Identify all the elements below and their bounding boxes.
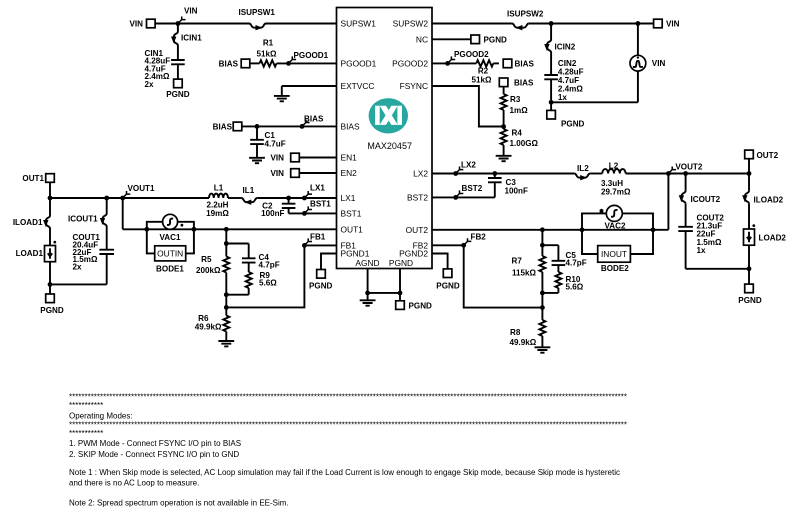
junction [540,305,545,310]
load LOAD1 [45,246,56,262]
svg-text:2x: 2x [73,263,83,272]
svg-text:VOUT2: VOUT2 [675,162,702,171]
wire COUT1 to LOAD1 bottom [50,283,107,285]
wire to ILOAD2 [748,174,750,191]
svg-text:VIN: VIN [184,7,198,16]
Maxim logo [369,98,408,133]
svg-text:ICOUT1: ICOUT1 [68,215,98,224]
svg-text:PGND: PGND [166,90,190,99]
wire R8 to ground [541,336,543,347]
wire ICOUT2 to COUT2 [685,204,687,226]
terminal PGND PGND1 [317,270,326,279]
svg-text:BODE2: BODE2 [601,264,629,273]
wire OUT1 to VOUT1 [49,182,51,198]
svg-text:PGND: PGND [389,258,413,268]
svg-text:PGOOD1: PGOOD1 [294,51,329,60]
junction [48,282,53,287]
svg-text:1mΩ: 1mΩ [510,106,529,115]
junction [492,171,497,176]
svg-text:49.9kΩ: 49.9kΩ [510,338,537,347]
current probe IL2 [574,174,590,178]
wire LOAD2 to PGND [748,245,750,269]
terminal PGND CIN2 [547,110,556,119]
wire LOAD1 to PGND [49,262,51,285]
wire LX2 to IL2 [432,173,574,175]
inductor L2 [602,169,625,173]
svg-text:EXTVCC: EXTVCC [341,81,375,91]
node LX2 [453,171,458,176]
svg-text:SUPSW2: SUPSW2 [393,19,429,29]
current probe IL1 [241,198,257,202]
resistor R8 [539,320,545,336]
label R10 values [566,275,584,292]
node PGOOD2 [445,61,450,66]
svg-text:PGND: PGND [484,35,508,44]
junction [48,196,53,201]
svg-text:VAC2: VAC2 [605,222,626,231]
svg-text:MAX20457: MAX20457 [367,141,412,151]
svg-text:***********: *********** [69,401,103,410]
svg-text:***********: *********** [69,429,103,438]
junction [104,196,109,201]
resistor R1 [260,60,277,66]
wire PGND down [399,269,401,293]
svg-text:PGND: PGND [561,119,585,128]
resistor R5 [223,257,229,273]
pin names left [341,19,377,259]
terminal OUT1 [46,174,55,183]
svg-text:Note 2: Spread spectrum operat: Note 2: Spread spectrum operation is not… [69,499,289,508]
wire PGND to terminal [399,293,401,301]
svg-text:PGND: PGND [309,281,333,290]
svg-text:BST1: BST1 [310,200,331,209]
wire to C5 branch [542,244,558,246]
wire L2 to OUT2 [626,173,749,175]
svg-text:PGND: PGND [436,281,460,290]
svg-text:BST1: BST1 [341,208,362,218]
label R1 values [257,39,278,59]
terminal PGND PGND2 [443,269,452,278]
junction [549,21,554,26]
ground AGND [360,300,376,303]
svg-text:R1: R1 [263,39,274,48]
label R9 values [259,271,277,288]
wire OUT2 pin wire [432,229,668,231]
wire VOUT1 to ICOUT1 [106,198,108,214]
wire R5 to R6 [225,273,227,316]
label R6 values [195,314,222,331]
ground EXTVCC [274,96,290,99]
junction [651,227,656,232]
label R3 values [510,95,529,115]
label L2 values [601,161,631,196]
wire VOUT2 to ICOUT2 [685,174,687,191]
svg-text:OUTIN: OUTIN [157,249,183,259]
wire ILOAD2 to LOAD2 [748,204,750,229]
wire LX2 to C3 [494,174,496,178]
current probe ISUPSW2 [512,24,529,28]
terminal BIAS R2 [503,59,512,68]
svg-text:115kΩ: 115kΩ [512,268,537,277]
svg-text:VIN: VIN [271,154,285,163]
svg-text:R3: R3 [510,95,521,104]
svg-text:R2: R2 [478,67,489,76]
load LOAD2 [744,229,755,245]
terminal BIAS R3 [499,78,508,87]
svg-text:FB2: FB2 [471,233,487,242]
svg-text:Operating Modes:: Operating Modes: [69,411,133,420]
resistor R7 [539,256,545,272]
terminal OUT2 [745,150,754,159]
resistor R4 [501,129,507,145]
junction [286,196,291,201]
wire COUT2 down [685,232,687,269]
resistor R2 [476,60,493,66]
svg-text:LOAD1: LOAD1 [16,249,44,258]
junction [224,227,229,232]
notes text block [69,393,627,508]
svg-text:SUPSW1: SUPSW1 [341,19,377,29]
svg-text:VIN: VIN [652,59,666,68]
svg-text:OUT1: OUT1 [22,174,44,183]
junction [224,305,229,310]
svg-text:1. PWM Mode - Connect FSYNC I/: 1. PWM Mode - Connect FSYNC I/O pin to B… [69,439,241,448]
resistor R9 [246,272,252,288]
wire VIN to ICIN2 [550,24,552,40]
wire OUT1 pin wire [123,228,337,230]
svg-text:ILOAD2: ILOAD2 [754,195,784,204]
current probe ILOAD2 [745,191,749,204]
svg-text:ICIN1: ICIN1 [181,34,202,43]
source VIN pulse [630,24,646,103]
ground R4 [496,156,512,159]
wire VOUT2 down to VAC2 [667,174,669,230]
svg-text:FB1: FB1 [310,232,326,241]
wire IL2 to L2 [590,173,602,175]
svg-text:OUT2: OUT2 [406,225,429,235]
wire BST2 pin wire [432,196,495,198]
label C5 values [566,251,587,268]
svg-text:OUT2: OUT2 [757,151,779,160]
svg-text:EN1: EN1 [341,153,358,163]
wire AGND to ground [367,293,369,300]
svg-text:Note 1 : When Skip mode is sel: Note 1 : When Skip mode is selected, AC … [69,468,620,477]
wire ILOAD1 to LOAD1 [49,229,51,246]
wire ICOUT1 to COUT1 [106,227,108,249]
svg-text:******************************: ****************************************… [69,393,627,402]
label CIN1 values [145,49,171,89]
svg-text:FSYNC: FSYNC [400,81,428,91]
label C1 values [265,131,286,149]
svg-text:and there is no AC Loop to mea: and there is no AC Loop to measure. [69,478,199,487]
svg-text:LX1: LX1 [310,184,325,193]
svg-text:IL2: IL2 [577,164,589,173]
wire BIAS to R1 [250,62,260,64]
svg-text:51kΩ: 51kΩ [257,50,278,59]
svg-text:VAC1: VAC1 [160,233,181,242]
wire L1 to IL1 [228,197,241,199]
wire EN1 pin [299,157,336,159]
svg-text:2x: 2x [145,80,155,89]
bode box BODE1 [155,246,186,261]
junction [540,227,545,232]
label COUT1 values [73,233,101,272]
terminal VIN EN2 [291,169,300,178]
svg-text:ILOAD1: ILOAD1 [13,218,43,227]
svg-text:LX1: LX1 [341,193,356,203]
svg-text:R8: R8 [510,328,521,337]
junction [683,171,688,176]
wire C1 to ground [256,145,258,158]
wire R3 to R4 [503,110,505,129]
wire R7 to R8 [541,272,543,320]
node BST1 [302,211,307,216]
wire to ILOAD1 [49,198,51,216]
label C3 values [505,178,528,195]
node PGOOD1 [286,61,291,66]
wire EN2 pin [299,172,336,174]
wire CIN1 to PGND [177,65,179,79]
bode box BODE2 [598,246,631,263]
junction [747,171,752,176]
wire EXTVCC pin [282,85,337,87]
label C4 values [259,253,280,270]
terminal PGND LOAD1 [46,294,55,303]
node FB1 [302,243,307,248]
wire LX1 to C2 [288,198,290,203]
svg-text:ICOUT2: ICOUT2 [691,195,721,204]
svg-text:ISUPSW2: ISUPSW2 [507,10,544,19]
svg-text:BIAS: BIAS [213,123,233,132]
label CIN2 values [558,59,584,102]
svg-text:ICIN2: ICIN2 [555,43,576,52]
svg-text:PGND: PGND [40,306,64,315]
wire C4 top [248,244,250,258]
wire PGND2 pin wire [432,254,448,269]
svg-text:PGOOD1: PGOOD1 [341,58,377,68]
svg-text:VOUT1: VOUT1 [128,184,155,193]
junction [192,227,197,232]
svg-text:VIN: VIN [666,20,680,29]
capacitor CIN1 [171,60,185,64]
inductor L1 [209,194,228,198]
wire C3 to BST2 [494,183,496,197]
wire COUT2 to LOAD2 bottom [686,268,749,270]
wire FB2 to divider [464,245,543,307]
wire R2 to BIAS [493,62,499,64]
svg-text:NC: NC [416,34,428,44]
wire C2 to BST1 [288,209,290,214]
source VAC2 [582,205,653,254]
terminal VIN input2 [654,19,663,28]
svg-text:PGND: PGND [409,301,433,310]
wire ISUPSW1 to SUPSW1 pin [266,23,337,25]
svg-text:OUT1: OUT1 [341,224,364,234]
terminal PGND CIN1 [174,79,183,88]
svg-text:100nF: 100nF [505,186,528,195]
svg-text:BIAS: BIAS [341,121,360,131]
wire C5 branch to R7 bottom [542,292,558,294]
wire FSYNC wire [432,86,504,127]
svg-text:******************************: ****************************************… [69,420,627,429]
terminal VIN input [147,19,156,28]
resistor R10 [555,272,561,288]
label R7 values [512,257,537,278]
svg-text:51kΩ: 51kΩ [472,75,493,84]
ground C1 [249,158,265,161]
svg-text:5.6Ω: 5.6Ω [259,279,277,288]
node LX1 [302,196,307,201]
junction [580,227,585,232]
capacitor COUT2 [678,227,693,231]
junction [398,291,403,296]
current probe ISUPSW1 [249,24,266,28]
svg-text:200kΩ: 200kΩ [196,266,221,275]
terminal BIAS R1 [241,59,250,68]
wire VOUT1 to L1 [50,197,209,199]
wire BST1 pin [289,212,337,214]
wire PGOOD2 to R2 [432,62,476,64]
svg-text:PGOOD2: PGOOD2 [392,58,428,68]
wire FB1 to divider [226,245,304,307]
label C2 values [261,202,284,219]
current probe ICOUT2 [681,191,685,204]
svg-text:5.6Ω: 5.6Ω [566,283,584,292]
wire CIN2 bottom to VIN source [551,101,638,103]
wire C5 to R10 [557,266,559,272]
wire NC pin wire [432,38,471,40]
capacitor CIN2 [544,75,558,79]
svg-text:LOAD2: LOAD2 [759,234,787,243]
capacitor C2 [282,204,296,208]
node BIAS [300,124,305,129]
svg-text:100nF: 100nF [261,209,284,218]
wire R10 bottom [557,288,559,293]
svg-text:R5: R5 [201,255,212,264]
wire CIN2 to PGND [550,80,552,110]
svg-text:AGND: AGND [355,258,379,268]
wire VOUT1 down to OUT1 wire [122,198,124,229]
current probe ILOAD1 [46,216,50,229]
current probe ICIN1 [174,32,178,46]
wire R6 to ground [225,332,227,342]
wire FB2 pin wire [432,244,464,246]
svg-text:BODE1: BODE1 [156,264,184,273]
wire SUPSW2 to ISUPSW2 [432,23,512,25]
resistor R3 [501,94,507,110]
source VAC1 [147,214,194,253]
label R2 values [472,67,493,85]
svg-text:BST2: BST2 [407,192,428,202]
terminal PGND LOAD2 [745,284,754,293]
capacitor COUT1 [99,250,114,254]
svg-text:BIAS: BIAS [514,79,534,88]
current probe ICIN2 [547,40,551,53]
pin names bottom AGND PGND [355,258,413,268]
ground R8 [535,347,551,350]
svg-text:INOUT: INOUT [601,249,627,259]
junction [747,266,752,271]
svg-text:19mΩ: 19mΩ [206,209,229,218]
svg-text:L1: L1 [214,184,224,193]
node VOUT2 [666,171,671,176]
svg-text:1.00GΩ: 1.00GΩ [510,139,539,148]
node FB2 [461,243,466,248]
wire OUT1 to R5 [225,229,227,256]
svg-text:ISUPSW1: ISUPSW1 [239,8,276,17]
svg-text:1x: 1x [558,93,568,102]
capacitor C4 [242,258,256,262]
junction [540,243,545,248]
junction [255,124,260,129]
wire COUT1 down [106,255,108,285]
label R8 values [510,328,537,347]
svg-text:L2: L2 [609,161,619,170]
svg-text:R7: R7 [512,257,523,266]
svg-text:2. SKIP Mode - Connect FSYNC I: 2. SKIP Mode - Connect FSYNC I/O pin to … [69,450,239,459]
svg-text:BIAS: BIAS [515,59,535,68]
svg-text:1x: 1x [697,246,707,255]
wire BIAS to C1 [256,126,258,139]
label COUT2 values [697,213,725,255]
wire AGND-PGND join [368,292,400,294]
pin names right [392,19,428,259]
wire BIAS to R3 [503,87,505,94]
wire to C4 branch [226,243,248,245]
terminal PGND IC bottom [396,301,405,310]
svg-text:IL1: IL1 [243,186,255,195]
svg-text:R4: R4 [512,129,523,138]
svg-text:49.9kΩ: 49.9kΩ [195,322,222,331]
junction [224,241,229,246]
terminal PGND NC [471,35,480,44]
svg-text:4.7pF: 4.7pF [259,261,280,270]
label R5 values [196,255,221,275]
svg-text:BST2: BST2 [462,184,483,193]
wire VIN to ICIN1 [177,24,179,32]
wire R1 to PGOOD1 pin [277,62,337,64]
op-amp U1 MAX20457 IC body [337,8,433,269]
capacitor C1 [250,140,264,144]
junction [365,291,370,296]
ground R6 [218,341,234,344]
wire ISUPSW2 to VIN terminal [529,23,654,25]
svg-text:29.7mΩ: 29.7mΩ [601,187,631,196]
capacitor C5 [552,261,566,265]
junction [501,124,506,129]
svg-text:BIAS: BIAS [219,59,239,68]
junction [224,292,229,297]
wire FB1 pin wire [304,244,336,246]
junction [540,291,545,296]
wire R9 bottom [248,288,250,295]
wire OUT2 to R7 [541,230,543,256]
wire BIAS to BIAS pin [242,125,337,127]
svg-text:LX2: LX2 [461,160,476,169]
wire AGND down [367,269,369,293]
terminal VIN EN1 [291,153,300,162]
wire VIN to ISUPSW1 [155,23,249,25]
wire OUT2 to VOUT2 [748,159,750,174]
svg-text:4.7pF: 4.7pF [566,259,587,268]
svg-text:PGOOD2: PGOOD2 [454,50,489,59]
svg-text:VIN: VIN [130,20,144,29]
wire ICIN1 to CIN1 [177,46,179,60]
resistor R6 [223,316,229,332]
svg-text:4.7uF: 4.7uF [265,140,286,149]
wire C4 branch to R5 bottom [226,294,248,296]
junction [549,100,554,105]
